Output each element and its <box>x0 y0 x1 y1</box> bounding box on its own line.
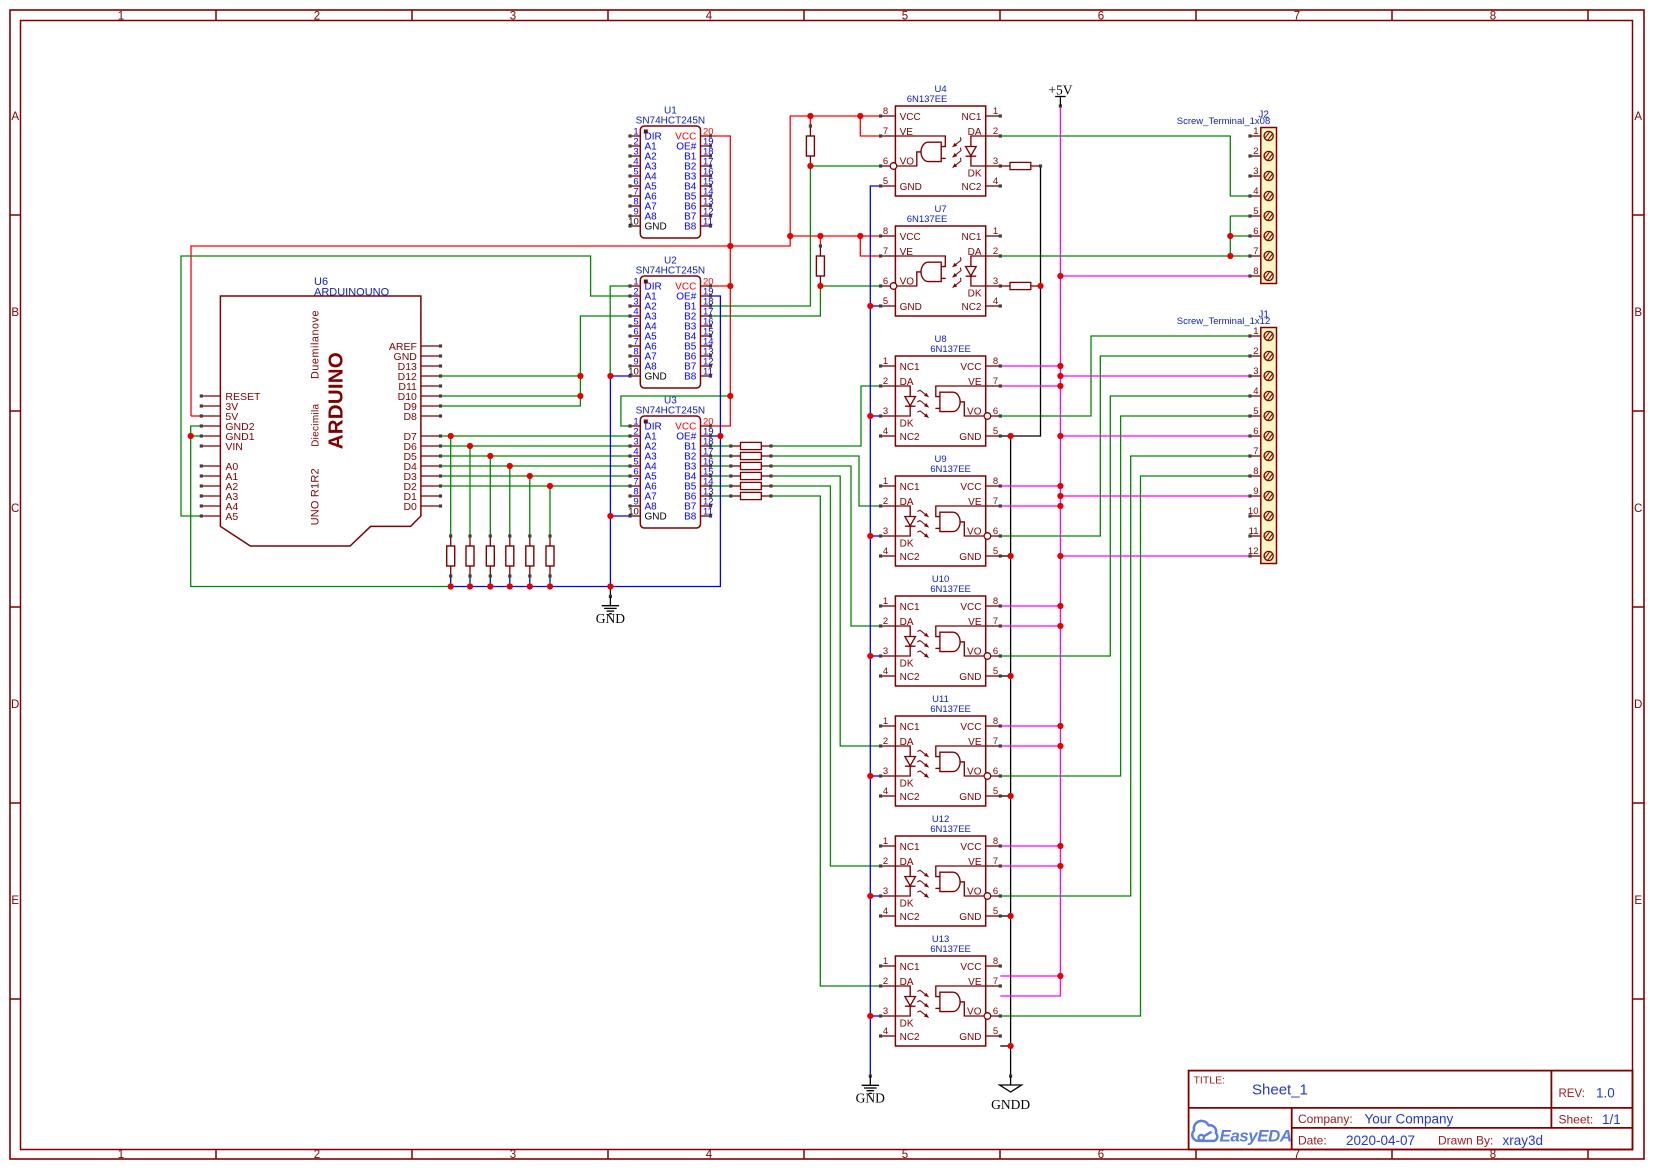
svg-text:6N137EE: 6N137EE <box>930 944 971 955</box>
svg-text:VCC: VCC <box>900 232 921 243</box>
svg-text:NC1: NC1 <box>900 962 920 973</box>
svg-text:10: 10 <box>628 506 639 517</box>
svg-text:1: 1 <box>118 10 124 22</box>
svg-text:1: 1 <box>1253 126 1258 137</box>
svg-text:6: 6 <box>993 646 998 657</box>
svg-text:6N137EE: 6N137EE <box>907 214 948 225</box>
svg-text:5: 5 <box>1253 206 1258 217</box>
svg-text:2: 2 <box>883 736 888 747</box>
svg-text:6N137EE: 6N137EE <box>930 344 971 355</box>
svg-text:7: 7 <box>993 376 998 387</box>
svg-text:8: 8 <box>993 716 998 727</box>
svg-text:6N137EE: 6N137EE <box>930 704 971 715</box>
svg-text:6: 6 <box>1098 10 1104 22</box>
svg-text:xray3d: xray3d <box>1503 1133 1544 1148</box>
svg-text:5: 5 <box>902 10 908 22</box>
svg-text:6: 6 <box>993 526 998 537</box>
svg-text:3: 3 <box>883 886 888 897</box>
svg-text:4: 4 <box>883 786 888 797</box>
svg-text:DK: DK <box>900 419 914 430</box>
svg-text:3: 3 <box>883 646 888 657</box>
svg-text:1: 1 <box>993 106 998 117</box>
svg-text:1: 1 <box>1253 326 1258 337</box>
svg-text:10: 10 <box>628 366 639 377</box>
svg-text:EasyEDA: EasyEDA <box>1220 1127 1292 1146</box>
svg-text:7: 7 <box>1253 246 1258 257</box>
svg-text:5: 5 <box>993 666 998 677</box>
svg-text:3: 3 <box>883 1006 888 1017</box>
svg-text:6: 6 <box>883 276 888 287</box>
svg-text:11: 11 <box>703 366 713 377</box>
svg-text:2: 2 <box>883 856 888 867</box>
svg-text:4: 4 <box>993 176 998 187</box>
svg-text:E: E <box>1634 895 1642 907</box>
svg-text:Diecimila: Diecimila <box>311 404 322 447</box>
svg-text:SN74HCT245N: SN74HCT245N <box>636 406 705 417</box>
svg-text:DK: DK <box>900 1019 914 1030</box>
svg-text:8: 8 <box>993 956 998 967</box>
svg-text:B8: B8 <box>684 372 697 383</box>
svg-text:1: 1 <box>993 226 998 237</box>
svg-text:4: 4 <box>883 426 888 437</box>
svg-text:TITLE:: TITLE: <box>1194 1075 1226 1087</box>
svg-text:2: 2 <box>883 376 888 387</box>
svg-text:8: 8 <box>993 836 998 847</box>
svg-text:7: 7 <box>993 616 998 627</box>
svg-text:4: 4 <box>1253 386 1258 397</box>
svg-text:D8: D8 <box>403 411 417 423</box>
svg-text:D: D <box>11 699 19 711</box>
svg-text:GND: GND <box>645 372 667 383</box>
svg-text:1: 1 <box>883 356 888 367</box>
svg-text:VIN: VIN <box>225 441 243 453</box>
svg-text:2020-04-07: 2020-04-07 <box>1346 1133 1415 1148</box>
svg-text:7: 7 <box>883 246 888 257</box>
svg-text:NC2: NC2 <box>900 912 920 923</box>
svg-text:GNDD: GNDD <box>991 1097 1030 1112</box>
svg-text:3: 3 <box>1253 166 1258 177</box>
svg-text:1/1: 1/1 <box>1602 1112 1621 1127</box>
svg-text:GND: GND <box>900 302 922 313</box>
svg-text:GND: GND <box>959 912 981 923</box>
svg-text:2: 2 <box>1253 146 1258 157</box>
svg-text:5: 5 <box>993 906 998 917</box>
svg-text:5: 5 <box>902 1149 908 1161</box>
svg-text:4: 4 <box>706 10 713 22</box>
svg-text:ARDUINO: ARDUINO <box>325 352 348 449</box>
svg-text:REV:: REV: <box>1559 1088 1585 1100</box>
svg-text:GND: GND <box>645 512 667 523</box>
svg-text:5: 5 <box>883 296 888 307</box>
svg-text:B8: B8 <box>684 512 697 523</box>
svg-text:NC1: NC1 <box>900 602 920 613</box>
svg-text:4: 4 <box>883 1026 888 1037</box>
svg-text:6: 6 <box>1253 226 1258 237</box>
svg-text:2: 2 <box>883 616 888 627</box>
svg-text:1: 1 <box>883 716 888 727</box>
svg-text:4: 4 <box>883 906 888 917</box>
svg-text:5: 5 <box>993 786 998 797</box>
svg-text:6: 6 <box>993 1006 998 1017</box>
svg-text:7: 7 <box>993 856 998 867</box>
svg-text:C: C <box>11 503 19 515</box>
svg-text:3: 3 <box>1253 366 1258 377</box>
svg-text:7: 7 <box>993 976 998 987</box>
svg-text:GND: GND <box>959 1032 981 1043</box>
svg-text:1: 1 <box>883 476 888 487</box>
svg-text:NC1: NC1 <box>961 112 981 123</box>
svg-text:7: 7 <box>1294 1149 1300 1161</box>
svg-text:NC2: NC2 <box>961 182 981 193</box>
svg-text:1: 1 <box>883 596 888 607</box>
svg-text:7: 7 <box>1294 10 1300 22</box>
svg-text:Screw_Terminal_1x12: Screw_Terminal_1x12 <box>1177 316 1270 327</box>
svg-text:2: 2 <box>883 976 888 987</box>
svg-text:12: 12 <box>1248 546 1259 557</box>
svg-text:2: 2 <box>883 496 888 507</box>
svg-text:8: 8 <box>993 476 998 487</box>
svg-text:D: D <box>1634 699 1642 711</box>
svg-text:5: 5 <box>993 1026 998 1037</box>
svg-text:DK: DK <box>968 289 982 300</box>
svg-text:5: 5 <box>993 426 998 437</box>
svg-text:DK: DK <box>968 169 982 180</box>
svg-text:GND: GND <box>645 222 667 233</box>
svg-text:DK: DK <box>900 659 914 670</box>
svg-text:Company:: Company: <box>1298 1112 1353 1126</box>
svg-text:1: 1 <box>883 836 888 847</box>
svg-text:DK: DK <box>900 779 914 790</box>
svg-text:2: 2 <box>314 10 320 22</box>
svg-text:3: 3 <box>883 526 888 537</box>
svg-text:7: 7 <box>883 126 888 137</box>
svg-text:6N137EE: 6N137EE <box>930 824 971 835</box>
svg-text:6: 6 <box>1098 1149 1104 1161</box>
svg-text:1: 1 <box>118 1149 124 1161</box>
svg-text:NC1: NC1 <box>900 722 920 733</box>
svg-text:3: 3 <box>510 1149 516 1161</box>
svg-text:VCC: VCC <box>960 482 981 493</box>
svg-text:3: 3 <box>510 10 516 22</box>
svg-text:8: 8 <box>883 226 888 237</box>
svg-text:GND: GND <box>959 552 981 563</box>
svg-text:A5: A5 <box>225 511 238 523</box>
svg-text:Your Company: Your Company <box>1365 1112 1454 1127</box>
svg-text:8: 8 <box>1253 466 1258 477</box>
svg-text:6: 6 <box>883 156 888 167</box>
svg-text:SN74HCT245N: SN74HCT245N <box>636 116 705 127</box>
svg-text:NC2: NC2 <box>900 792 920 803</box>
svg-text:NC1: NC1 <box>961 232 981 243</box>
svg-text:2: 2 <box>1253 346 1258 357</box>
svg-text:UNO R1R2: UNO R1R2 <box>310 468 322 525</box>
svg-text:B: B <box>11 307 19 319</box>
svg-text:NC2: NC2 <box>900 1032 920 1043</box>
svg-text:7: 7 <box>1253 446 1258 457</box>
svg-text:ARDUINOUNO: ARDUINOUNO <box>314 287 390 299</box>
svg-text:10: 10 <box>628 216 639 227</box>
svg-text:VCC: VCC <box>960 842 981 853</box>
svg-text:VCC: VCC <box>900 112 921 123</box>
svg-text:Duemilanove: Duemilanove <box>310 310 322 379</box>
svg-text:NC2: NC2 <box>900 552 920 563</box>
svg-text:DK: DK <box>900 539 914 550</box>
svg-text:VCC: VCC <box>960 602 981 613</box>
svg-text:3: 3 <box>883 766 888 777</box>
svg-text:6: 6 <box>993 766 998 777</box>
svg-text:8: 8 <box>993 596 998 607</box>
svg-text:C: C <box>1634 503 1642 515</box>
svg-text:5: 5 <box>993 546 998 557</box>
svg-text:8: 8 <box>883 106 888 117</box>
svg-text:6: 6 <box>1253 426 1258 437</box>
svg-text:9: 9 <box>1253 486 1258 497</box>
svg-text:8: 8 <box>993 356 998 367</box>
svg-text:8: 8 <box>1253 266 1258 277</box>
svg-text:GND: GND <box>959 432 981 443</box>
svg-text:B8: B8 <box>684 222 697 233</box>
svg-text:2: 2 <box>993 246 998 257</box>
svg-text:8: 8 <box>1490 10 1496 22</box>
svg-text:Sheet_1: Sheet_1 <box>1252 1082 1308 1099</box>
svg-text:GND: GND <box>900 182 922 193</box>
svg-text:4: 4 <box>1253 186 1258 197</box>
svg-text:NC1: NC1 <box>900 842 920 853</box>
svg-text:VCC: VCC <box>960 722 981 733</box>
svg-text:4: 4 <box>883 666 888 677</box>
svg-text:6: 6 <box>993 406 998 417</box>
svg-text:NC2: NC2 <box>900 432 920 443</box>
svg-text:2: 2 <box>993 126 998 137</box>
svg-text:11: 11 <box>703 506 713 517</box>
svg-text:2: 2 <box>314 1149 320 1161</box>
svg-text:A: A <box>11 111 19 123</box>
svg-text:6: 6 <box>993 886 998 897</box>
svg-text:NC1: NC1 <box>900 362 920 373</box>
svg-text:D0: D0 <box>403 501 417 513</box>
svg-text:10: 10 <box>1248 506 1259 517</box>
svg-text:6N137EE: 6N137EE <box>930 464 971 475</box>
svg-text:11: 11 <box>703 216 713 227</box>
svg-text:Date:: Date: <box>1298 1134 1327 1148</box>
svg-text:1: 1 <box>883 956 888 967</box>
svg-text:A: A <box>1634 111 1642 123</box>
svg-text:VCC: VCC <box>960 962 981 973</box>
svg-text:3: 3 <box>993 276 998 287</box>
svg-text:Sheet:: Sheet: <box>1559 1113 1594 1127</box>
svg-text:NC1: NC1 <box>900 482 920 493</box>
svg-text:6N137EE: 6N137EE <box>930 584 971 595</box>
svg-text:4: 4 <box>706 1149 713 1161</box>
svg-text:VCC: VCC <box>960 362 981 373</box>
svg-text:8: 8 <box>1490 1149 1496 1161</box>
svg-text:GND: GND <box>959 792 981 803</box>
svg-text:6N137EE: 6N137EE <box>907 94 948 105</box>
svg-text:GND: GND <box>959 672 981 683</box>
svg-text:5: 5 <box>883 176 888 187</box>
svg-text:+5V: +5V <box>1048 82 1072 97</box>
svg-text:GND: GND <box>596 611 625 626</box>
svg-text:7: 7 <box>993 736 998 747</box>
svg-text:Screw_Terminal_1x08: Screw_Terminal_1x08 <box>1177 116 1270 127</box>
svg-text:4: 4 <box>993 296 998 307</box>
svg-text:3: 3 <box>993 156 998 167</box>
svg-text:3: 3 <box>883 406 888 417</box>
svg-text:11: 11 <box>1249 526 1259 537</box>
svg-text:Drawn By:: Drawn By: <box>1438 1134 1493 1148</box>
svg-text:1.0: 1.0 <box>1596 1086 1615 1101</box>
svg-text:4: 4 <box>883 546 888 557</box>
svg-text:5: 5 <box>1253 406 1258 417</box>
svg-text:DK: DK <box>900 899 914 910</box>
svg-text:NC2: NC2 <box>961 302 981 313</box>
svg-text:NC2: NC2 <box>900 672 920 683</box>
svg-text:E: E <box>11 895 19 907</box>
svg-text:B: B <box>1634 307 1642 319</box>
svg-text:7: 7 <box>993 496 998 507</box>
svg-text:SN74HCT245N: SN74HCT245N <box>636 266 705 277</box>
svg-text:GND: GND <box>856 1091 885 1106</box>
